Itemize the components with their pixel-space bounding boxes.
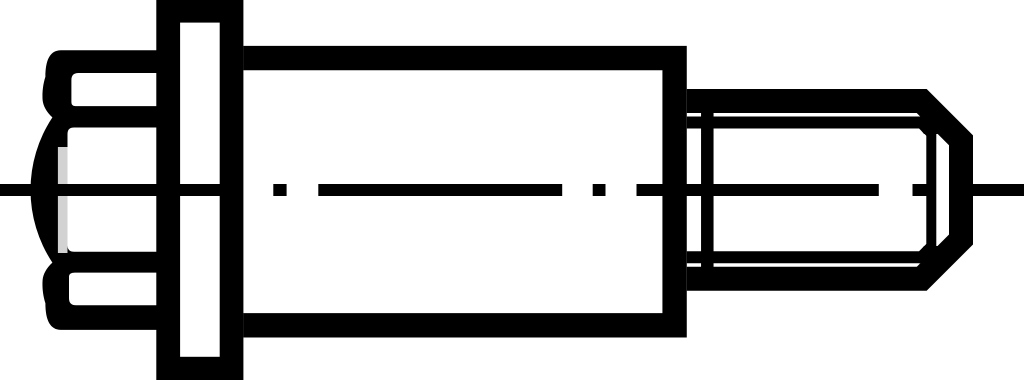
chamfer start line at thread end bbox=[926, 129, 936, 251]
cylindrical body outline (top, right, bottom) bbox=[243, 58, 674, 325]
junction patch bottom (thread line into chamfer) bbox=[916, 246, 939, 264]
thread run-out line bbox=[701, 111, 714, 268]
hex head gray chamfer shading bbox=[58, 147, 68, 253]
threaded end outline with chamfered tip bbox=[687, 101, 961, 279]
flange white interior bbox=[180, 23, 220, 357]
hex head lower face white pocket bbox=[69, 273, 160, 306]
centerline (dash-dot) bbox=[0, 184, 1024, 196]
hex head upper face white pocket bbox=[71, 73, 160, 106]
thread minor-diameter line bottom bbox=[687, 247, 933, 258]
junction patch top (thread line into chamfer) bbox=[916, 117, 939, 135]
thread minor-diameter line top bbox=[687, 123, 933, 134]
hex head black silhouette bbox=[31, 50, 160, 330]
flange (washer) black body bbox=[156, 0, 243, 380]
hex head middle face white pocket bbox=[68, 128, 161, 252]
